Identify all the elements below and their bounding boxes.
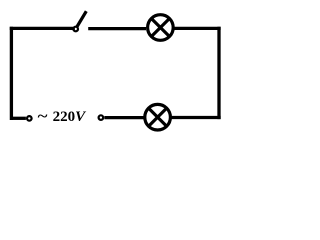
- wire: source left terminal to bottom-left corner: [11, 117, 26, 120]
- source terminal (left): [27, 116, 32, 121]
- lamp L2: cross stroke 1: [149, 108, 167, 126]
- wire: switch to lamp L1: [88, 27, 146, 30]
- wire: left vertical: [10, 28, 13, 118]
- lamp L1: cross stroke 2: [151, 18, 169, 36]
- wire: bottom-right horizontal (corner to lamp L2): [171, 116, 219, 119]
- svg-text:~220V: ~220V: [38, 109, 88, 125]
- source terminal (right): [99, 115, 104, 120]
- lamp L1: cross stroke 1: [151, 18, 169, 36]
- wire: lamp L2 to source right terminal: [104, 116, 143, 119]
- switch S: lever arm (open): [77, 11, 87, 27]
- switch S: pivot circle: [73, 27, 78, 32]
- wire: top-left horizontal (corner to switch): [11, 27, 73, 30]
- wire: lamp L1 to top-right corner: [175, 27, 219, 30]
- lamp L2: cross stroke 2: [149, 108, 167, 126]
- lamp L2: bulb circle: [145, 104, 171, 130]
- lamp L1: bulb circle: [148, 15, 174, 41]
- wire: right vertical: [217, 28, 220, 117]
